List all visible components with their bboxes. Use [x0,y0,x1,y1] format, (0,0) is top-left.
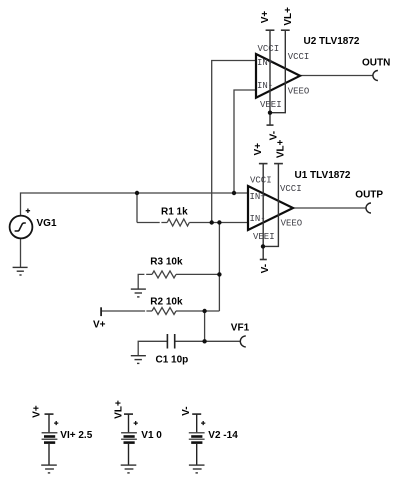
junction R2 branch [202,309,206,313]
svg-text:VCCI: VCCI [280,184,302,194]
svg-text:VL+: VL+ [283,7,294,26]
svg-text:VCCI: VCCI [288,52,310,62]
wire: branch down to C1 row [204,311,206,341]
svg-text:VF1: VF1 [231,323,250,334]
junction U2 VEE [268,111,272,115]
wire: node down from VG1 wire to R1 row [136,193,138,223]
node V+ bar at R2 [100,307,102,316]
voltage generator VG1 circle [10,216,33,239]
terminal VF1 [240,336,246,347]
resistor R3 zigzag [152,271,176,278]
capacitor C1 plates [167,334,174,349]
battery V2 [189,414,205,465]
ground (C1) [131,356,146,364]
junction main/R1 [135,191,139,195]
wire: U2 IN+ down to R1 output node [212,61,256,223]
svg-text:IN-: IN- [257,81,273,91]
svg-text:IN+: IN+ [250,192,266,202]
junction node dots [135,191,236,344]
svg-text:V+: V+ [93,319,106,330]
wire: R1 right lead to U1 IN- [189,222,248,224]
svg-text:VCCI: VCCI [258,44,280,54]
wire: C1 right lead to VF1 terminal [175,340,241,342]
terminal OUTN [373,71,378,81]
ground (VG1) [13,267,28,275]
svg-text:V2 -14: V2 -14 [208,430,238,441]
resistor R2 zigzag [152,308,176,315]
svg-text:U1 TLV1872: U1 TLV1872 [295,170,351,181]
svg-text:OUTN: OUTN [362,57,390,68]
resistor R1 zigzag [167,219,189,226]
ground (battery V2) [189,465,205,473]
svg-text:R3 10k: R3 10k [150,257,183,268]
battery V2 plus sign [201,421,205,425]
svg-text:V+: V+ [260,11,271,24]
junction U1 VEE [261,244,265,248]
svg-text:VI+ 2.5: VI+ 2.5 [60,430,92,441]
svg-text:VEEI: VEEI [260,100,282,110]
svg-text:IN+: IN+ [257,58,273,68]
junction main/U2 IN- [232,191,236,195]
ground (R3) [131,289,146,297]
VG1 plus sign [26,209,30,214]
svg-text:V-: V- [260,264,271,273]
svg-text:V1 0: V1 0 [141,430,162,441]
wire: VG1 bottom stem to ground [20,238,22,267]
battery V1 [121,414,137,465]
svg-text:VEEO: VEEO [288,86,310,96]
wire: R3 left lead to ground [138,274,152,289]
U2 VCC left rail [266,30,275,125]
terminal OUTP [366,203,371,213]
svg-text:V-: V- [181,406,192,415]
wire: R1 left lead [137,222,167,224]
wire: R2 right lead to node [176,310,219,312]
battery VI+ [42,414,58,465]
svg-text:VL+: VL+ [276,139,287,158]
wire: feedback node down to R2 row [218,223,220,312]
wire: R3 right lead to node [176,273,219,275]
svg-text:U2 TLV1872: U2 TLV1872 [304,36,360,47]
wire: VG1 top to U1 IN+ (main node) [21,193,249,216]
svg-text:VEEO: VEEO [281,218,303,228]
svg-text:VCCI: VCCI [250,176,272,186]
svg-text:IN-: IN- [250,214,266,224]
svg-text:R1 1k: R1 1k [161,206,188,217]
svg-text:VEEI: VEEI [253,232,275,242]
svg-text:C1 10p: C1 10p [156,355,189,366]
U1 VCC right rail [263,164,283,247]
op-amp U1 triangle [248,186,293,230]
battery V1 plus sign [134,421,138,425]
VG1 waveform symbol [15,223,26,231]
svg-text:VG1: VG1 [37,218,57,229]
svg-text:V-: V- [268,131,279,140]
wire: C1 left lead to ground [138,341,167,355]
junction R1 out/feedback [217,220,221,224]
junction R1 out/U2 IN+ [210,220,214,224]
wire: R2 left lead from V+ bar [101,310,152,312]
svg-text:VL+: VL+ [114,400,125,419]
wire: U1 output to OUTP [293,207,366,209]
U2 VCC right rail [270,30,290,113]
svg-text:OUTP: OUTP [355,189,383,200]
svg-text:V+: V+ [32,405,43,418]
op-amp U2 triangle [256,54,300,98]
U1 VCC left rail [259,164,268,260]
wire: U2 IN- down to main node [234,90,256,193]
battery VI+ plus sign [54,421,58,425]
svg-text:V+: V+ [253,143,264,156]
wire: U2 output to OUTN [300,75,373,77]
junction R3 [217,272,221,276]
svg-text:R2 10k: R2 10k [150,296,183,307]
ground (battery VI+) [41,465,57,473]
ground (battery V1) [121,465,137,473]
junction C1/VF1 [202,339,206,343]
